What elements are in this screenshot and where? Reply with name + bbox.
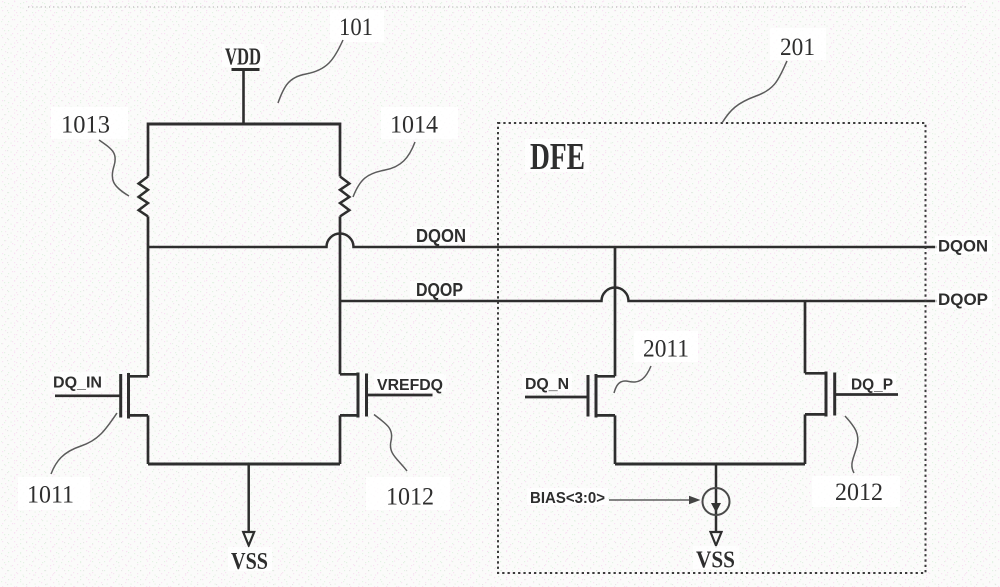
leader for 1011 (51, 413, 117, 474)
wire: DFE bottom rail (615, 463, 805, 466)
svg-text:VDD: VDD (225, 45, 261, 71)
svg-text:2012: 2012 (835, 479, 883, 506)
label VSS right (693, 546, 739, 569)
svg-text:VREFDQ: VREFDQ (377, 377, 443, 394)
label DQOP (right) (935, 290, 992, 308)
label 1014 with box (381, 107, 458, 139)
svg-text:DQOP: DQOP (938, 291, 988, 309)
power VDD symbol (232, 70, 260, 124)
label BIAS<3:0> (527, 488, 608, 505)
wire: right branch to transistor 1012 drain (339, 216, 342, 374)
svg-text:1011: 1011 (27, 482, 74, 509)
transistor 1012 (NMOS, gate right) (340, 373, 433, 465)
label DFE (525, 139, 589, 172)
leader for 1014 (353, 142, 415, 197)
leader for 1012 (374, 415, 407, 472)
leader for 201 (722, 61, 787, 123)
label DQ_N (522, 374, 572, 391)
top dotted scan line (28, 6, 966, 8)
label 2012 with box (812, 476, 900, 507)
transistor 2011 (NMOS, gate left) (525, 374, 615, 464)
svg-text:DQON: DQON (938, 238, 988, 256)
svg-text:VSS: VSS (696, 548, 735, 574)
wire: left branch upper (147, 123, 150, 177)
svg-text:1012: 1012 (386, 484, 434, 511)
svg-text:DFE: DFE (530, 136, 585, 178)
label 201 with box (770, 28, 826, 61)
wire: left branch to transistor drain (147, 216, 150, 376)
svg-text:1013: 1013 (61, 112, 110, 139)
net DQOP wire with hop over 2011 branch (340, 288, 937, 302)
leader for 1013 (99, 140, 129, 196)
svg-text:DQ_N: DQ_N (525, 376, 569, 393)
label 2011 with box (634, 331, 698, 363)
resistor 1014 (340, 177, 349, 217)
net DQON wire with hop over right branch (148, 234, 937, 247)
svg-text:201: 201 (780, 34, 815, 61)
svg-text:DQOP: DQOP (416, 280, 463, 300)
resistor 1013 (139, 177, 148, 217)
label 1011 with box (18, 477, 90, 510)
leader for 2012 (845, 416, 858, 473)
wire: 2011 branch from DQON (614, 247, 617, 376)
label DQON (right) (935, 236, 992, 254)
label VDD (222, 44, 264, 67)
svg-text:VSS: VSS (231, 549, 268, 575)
svg-text:101: 101 (339, 14, 373, 41)
leader for 101 (278, 40, 343, 103)
transistor 2012 (NMOS, gate right) (805, 372, 898, 465)
ground VSS left (tail + open arrow) (243, 464, 254, 546)
label 1012 with box (366, 477, 450, 511)
label 1013 with box (51, 107, 128, 139)
svg-text:DQ_P: DQ_P (851, 377, 893, 394)
wire: 2012 branch from DQOP (804, 301, 807, 373)
label DQ_IN (50, 372, 105, 391)
label 101 with box (330, 10, 384, 42)
svg-text:1014: 1014 (390, 112, 438, 139)
ground VSS right (open arrow) (711, 532, 722, 546)
svg-text:BIAS<3:0>: BIAS<3:0> (530, 490, 605, 507)
transistor 1011 (NMOS, gate left) (55, 373, 148, 464)
wire: top rail VDD node (148, 123, 341, 126)
leader for 2011 (614, 366, 651, 393)
svg-text:DQ_IN: DQ_IN (53, 375, 102, 392)
label DQOP (mid) (410, 281, 470, 298)
label DQON (mid) (410, 227, 470, 244)
label DQ_P (848, 374, 896, 391)
label VREFDQ (374, 374, 446, 392)
wire: bottom rail of diff pair (148, 463, 340, 466)
current source I1 (circle with down arrow) (703, 464, 730, 532)
DFE dashed box 201 (498, 123, 926, 573)
wire: right branch upper (339, 123, 342, 177)
svg-text:DQON: DQON (416, 226, 466, 246)
label VSS left (228, 547, 272, 571)
BIAS arrow into current source (609, 496, 701, 504)
svg-text:2011: 2011 (643, 336, 689, 363)
